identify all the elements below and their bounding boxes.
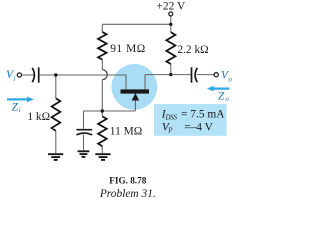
svg-text:=–4 V: =–4 V — [184, 121, 213, 133]
svg-text:91 MΩ: 91 MΩ — [110, 43, 146, 55]
svg-text:1 kΩ: 1 kΩ — [27, 111, 50, 123]
svg-text:i: i — [13, 75, 15, 83]
svg-text:Z: Z — [218, 90, 225, 102]
svg-text:o: o — [228, 75, 232, 83]
svg-text:DSS: DSS — [165, 113, 178, 121]
svg-text:11 MΩ: 11 MΩ — [110, 125, 142, 137]
svg-text:P: P — [167, 127, 173, 135]
svg-text:Problem 31.: Problem 31. — [99, 188, 156, 200]
svg-text:Z: Z — [12, 102, 19, 114]
svg-text:+22 V: +22 V — [157, 0, 186, 12]
svg-text:= 7.5 mA: = 7.5 mA — [181, 109, 225, 121]
svg-text:o: o — [225, 95, 229, 103]
svg-text:2.2 kΩ: 2.2 kΩ — [177, 44, 208, 56]
svg-text:i: i — [19, 106, 21, 114]
svg-text:FIG. 8.78: FIG. 8.78 — [109, 175, 146, 185]
